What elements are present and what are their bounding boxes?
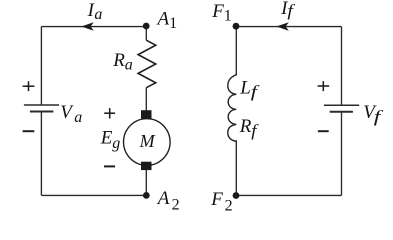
node A2 junction dot [143,192,150,199]
svg-text:M: M [139,131,156,151]
svg-text:If: If [280,0,295,20]
svg-text:F2: F2 [210,189,232,214]
wire: left vertical lower (battery Va bottom plate to bottom corner) [40,112,42,196]
polarity + of battery Vf [318,81,330,91]
svg-text:Ia: Ia [87,0,103,23]
current If arrowhead (pointing left) [276,22,289,30]
wire: bottom horizontal left (corner to node A2) [41,194,146,196]
field winding coil Lf Rf (4 turns) [228,75,237,142]
polarity + of battery Va [23,81,35,91]
node A1 junction dot [143,23,150,30]
node F2 junction dot [233,192,240,199]
wire: resistor Ra to motor top terminal [145,88,147,111]
svg-text:Ra: Ra [112,50,133,74]
wire: right vertical upper (corner to battery Vf top plate) [341,27,343,106]
battery Va top plate (+, long) [24,104,59,106]
polarity - of battery Vf [318,130,329,132]
svg-text:Eg: Eg [100,128,121,152]
svg-text:Vf: Vf [363,102,383,126]
svg-text:F1: F1 [211,1,232,24]
resistor Ra zigzag [138,40,156,87]
polarity + of Eg [104,108,115,118]
battery Va bottom plate (-, short) [30,111,54,113]
motor top terminal square [141,110,152,119]
battery Vf top plate (+, long) [324,104,359,106]
node F1 junction dot [233,23,240,30]
svg-text:Va: Va [60,102,82,126]
motor M circle [124,119,171,166]
wire: node F1 down to field coil [235,27,237,76]
wire: top horizontal Va to node A1 [41,26,146,28]
wire: node A1 down to resistor Ra [145,27,147,41]
wire: motor bottom terminal to node A2 [145,170,147,195]
polarity - of Eg [104,165,115,167]
svg-text:A2: A2 [156,188,180,213]
svg-text:Rf: Rf [239,116,259,140]
battery Vf bottom plate (-, short) [330,111,353,113]
wire: right vertical lower (battery Vf bottom plate to bottom corner) [341,112,343,196]
current Ia arrowhead (pointing left) [81,22,94,30]
wire: bottom horizontal right (node F2 to right corner) [236,194,341,196]
svg-text:A1: A1 [156,8,178,32]
wire: top horizontal F1 to right corner [236,26,341,28]
wire: left vertical upper (corner to battery Va top plate) [40,27,42,105]
svg-text:Lf: Lf [239,77,260,101]
wire: field coil down to node F2 [235,140,237,195]
motor bottom terminal square [141,162,152,170]
polarity - of battery Va [23,130,35,132]
